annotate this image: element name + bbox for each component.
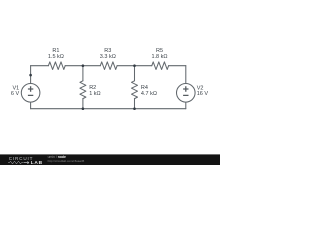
- svg-text:R3: R3: [104, 48, 111, 54]
- svg-text:R1: R1: [52, 48, 59, 54]
- svg-text:LAB: LAB: [31, 160, 43, 165]
- svg-text:R4: R4: [141, 85, 148, 91]
- svg-text:1.8 kΩ: 1.8 kΩ: [151, 54, 167, 60]
- svg-text:3.3 kΩ: 3.3 kΩ: [100, 54, 116, 60]
- svg-text:4.7 kΩ: 4.7 kΩ: [141, 91, 157, 97]
- svg-text:R5: R5: [156, 48, 163, 54]
- svg-text:CIRCUIT: CIRCUIT: [9, 156, 34, 161]
- svg-text:R2: R2: [89, 85, 96, 91]
- svg-text:1 kΩ: 1 kΩ: [89, 91, 100, 97]
- svg-text:1.5 kΩ: 1.5 kΩ: [48, 54, 64, 60]
- svg-text:16 V: 16 V: [197, 91, 209, 97]
- svg-text:http://circuitlab.com/c6saa45: http://circuitlab.com/c6saa45: [48, 159, 85, 163]
- svg-text:6 V: 6 V: [11, 91, 20, 97]
